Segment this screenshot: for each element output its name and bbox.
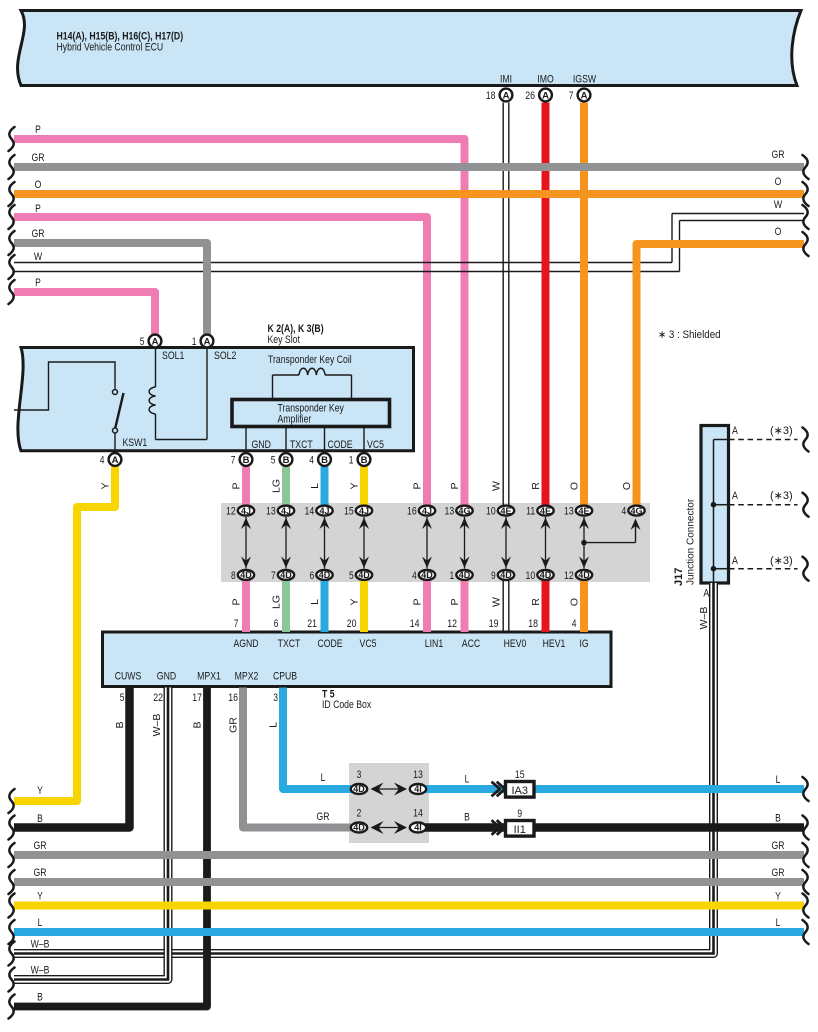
svg-text:4D: 4D [459, 570, 471, 580]
svg-text:3: 3 [357, 769, 362, 781]
svg-text:10: 10 [486, 506, 496, 518]
svg-text:O: O [35, 179, 42, 191]
svg-text:13: 13 [445, 506, 455, 518]
svg-text:A: A [503, 90, 510, 101]
svg-text:5: 5 [271, 455, 276, 467]
svg-text:O: O [621, 482, 633, 490]
svg-text:3: 3 [273, 692, 278, 704]
svg-text:4I: 4I [414, 784, 422, 794]
svg-text:MPX2: MPX2 [235, 671, 259, 683]
svg-text:W: W [491, 597, 503, 607]
svg-text:GR: GR [772, 840, 785, 852]
svg-text:HEV1: HEV1 [543, 638, 566, 650]
svg-text:P: P [35, 124, 41, 136]
svg-text:20: 20 [347, 618, 357, 630]
svg-text:P: P [449, 482, 461, 489]
svg-text:LIN1: LIN1 [425, 638, 443, 650]
svg-text:R: R [530, 598, 542, 606]
svg-text:4E: 4E [540, 506, 551, 516]
svg-text:B: B [283, 455, 290, 466]
svg-text:4: 4 [309, 455, 314, 467]
svg-text:17: 17 [192, 692, 202, 704]
svg-text:4J: 4J [241, 506, 251, 516]
svg-text:W–B: W–B [31, 965, 50, 977]
svg-text:GR: GR [34, 840, 47, 852]
svg-text:L: L [776, 917, 781, 929]
svg-text:A: A [581, 90, 588, 101]
svg-text:Transponder Key Coil: Transponder Key Coil [268, 354, 352, 366]
svg-text:B: B [361, 455, 368, 466]
svg-text:2: 2 [357, 808, 362, 820]
svg-text:12: 12 [226, 506, 236, 518]
svg-text:16: 16 [228, 692, 238, 704]
svg-text:GND: GND [252, 439, 271, 451]
svg-text:GR: GR [228, 717, 240, 733]
svg-text:P: P [231, 482, 243, 489]
svg-text:A: A [542, 90, 549, 101]
svg-text:Amplifier: Amplifier [278, 414, 312, 426]
svg-text:Y: Y [100, 482, 112, 489]
svg-text:P: P [35, 203, 41, 215]
svg-text:VC5: VC5 [367, 439, 384, 451]
svg-text:4: 4 [412, 570, 417, 582]
svg-text:A: A [112, 455, 119, 466]
svg-text:(∗3): (∗3) [770, 425, 793, 437]
svg-text:W–B: W–B [151, 714, 163, 737]
svg-text:7: 7 [569, 90, 574, 102]
svg-text:GR: GR [32, 152, 45, 164]
svg-text:5: 5 [120, 692, 125, 704]
svg-text:4D: 4D [319, 570, 331, 580]
svg-text:4D: 4D [240, 570, 252, 580]
svg-text:L: L [268, 722, 280, 728]
svg-text:4D: 4D [578, 570, 590, 580]
svg-text:B: B [321, 455, 328, 466]
svg-text:4J: 4J [422, 506, 432, 516]
svg-text:P: P [412, 482, 424, 489]
svg-text:14: 14 [305, 506, 315, 518]
svg-text:16: 16 [407, 506, 417, 518]
svg-text:GR: GR [34, 867, 47, 879]
svg-text:IMI: IMI [500, 74, 512, 86]
svg-text:4G: 4G [458, 506, 470, 516]
svg-text:HEV0: HEV0 [504, 638, 527, 650]
svg-text:B: B [243, 455, 250, 466]
svg-text:26: 26 [525, 90, 535, 102]
svg-text:1: 1 [192, 336, 197, 348]
svg-text:A: A [732, 490, 738, 502]
svg-text:4G: 4G [630, 506, 642, 516]
svg-text:12: 12 [447, 618, 457, 630]
svg-text:II1: II1 [514, 824, 526, 836]
svg-text:O: O [775, 226, 782, 238]
svg-text:B: B [37, 813, 43, 825]
svg-text:L: L [309, 483, 321, 489]
svg-text:B: B [37, 992, 43, 1004]
svg-text:IG: IG [579, 638, 588, 650]
svg-text:W–B: W–B [31, 939, 50, 951]
svg-text:18: 18 [528, 618, 538, 630]
svg-text:7: 7 [271, 570, 276, 582]
svg-text:13: 13 [266, 506, 276, 518]
svg-text:A: A [703, 588, 709, 600]
svg-text:P: P [412, 598, 424, 605]
svg-text:GR: GR [772, 149, 785, 161]
svg-text:L: L [321, 772, 326, 784]
svg-text:19: 19 [489, 618, 499, 630]
svg-text:A: A [732, 425, 738, 437]
svg-text:4D: 4D [540, 570, 552, 580]
svg-text:SOL1: SOL1 [162, 350, 184, 362]
svg-text:B: B [192, 721, 204, 728]
svg-text:LG: LG [271, 479, 283, 493]
svg-text:O: O [569, 482, 581, 490]
svg-text:SOL2: SOL2 [214, 350, 236, 362]
svg-text:B: B [464, 812, 470, 824]
svg-text:IA3: IA3 [511, 785, 528, 797]
svg-text:ID Code Box: ID Code Box [322, 699, 372, 711]
svg-text:LG: LG [271, 595, 283, 609]
svg-text:ACC: ACC [462, 638, 480, 650]
svg-text:14: 14 [413, 808, 423, 820]
svg-text:4D: 4D [500, 570, 512, 580]
svg-text:4J: 4J [319, 506, 329, 516]
svg-text:9: 9 [517, 808, 522, 820]
svg-text:4D: 4D [353, 784, 365, 794]
svg-text:GND: GND [157, 671, 176, 683]
svg-text:4E: 4E [500, 506, 511, 516]
svg-text:Y: Y [37, 785, 43, 797]
svg-text:18: 18 [486, 90, 496, 102]
svg-text:21: 21 [307, 618, 317, 630]
svg-text:4: 4 [100, 455, 105, 467]
svg-text:O: O [569, 598, 581, 606]
svg-text:13: 13 [413, 769, 423, 781]
svg-text:4: 4 [622, 506, 627, 518]
svg-text:TXCT: TXCT [278, 638, 301, 650]
svg-text:7: 7 [234, 618, 239, 630]
svg-text:6: 6 [310, 570, 315, 582]
svg-text:CODE: CODE [317, 638, 342, 650]
svg-text:W–B: W–B [698, 607, 710, 630]
svg-text:TXCT: TXCT [290, 439, 313, 451]
svg-text:CUWS: CUWS [115, 671, 142, 683]
svg-text:MPX1: MPX1 [197, 671, 221, 683]
svg-text:CPUB: CPUB [273, 671, 297, 683]
svg-text:7: 7 [231, 455, 236, 467]
svg-text:4E: 4E [578, 506, 589, 516]
svg-text:4D: 4D [358, 570, 370, 580]
svg-text:∗ 3 : Shielded: ∗ 3 : Shielded [658, 329, 721, 341]
svg-text:IMO: IMO [537, 74, 554, 86]
svg-text:Junction Connector: Junction Connector [686, 498, 697, 585]
svg-text:Y: Y [349, 482, 361, 489]
svg-text:9: 9 [491, 570, 496, 582]
svg-text:W: W [491, 481, 503, 491]
svg-text:P: P [35, 277, 41, 289]
svg-text:W: W [774, 199, 783, 211]
svg-text:4J: 4J [359, 506, 369, 516]
svg-text:22: 22 [153, 692, 163, 704]
svg-text:1: 1 [349, 455, 354, 467]
svg-text:11: 11 [526, 506, 535, 518]
svg-text:13: 13 [564, 506, 574, 518]
svg-text:B: B [775, 813, 781, 825]
svg-text:15: 15 [344, 506, 354, 518]
svg-text:W: W [34, 251, 43, 263]
svg-text:6: 6 [274, 618, 279, 630]
svg-text:1: 1 [450, 570, 455, 582]
svg-text:4: 4 [572, 618, 577, 630]
svg-text:CODE: CODE [328, 439, 353, 451]
svg-text:Y: Y [775, 891, 781, 903]
svg-text:5: 5 [140, 336, 145, 348]
svg-text:L: L [309, 599, 321, 605]
svg-text:A: A [732, 555, 738, 567]
svg-text:A: A [152, 336, 159, 347]
svg-text:Key Slot: Key Slot [268, 334, 300, 346]
svg-text:L: L [465, 774, 470, 786]
svg-text:A: A [204, 336, 211, 347]
svg-text:5: 5 [349, 570, 354, 582]
svg-text:IGSW: IGSW [573, 74, 597, 86]
svg-text:4I: 4I [414, 823, 422, 833]
svg-text:GR: GR [32, 228, 45, 240]
svg-text:O: O [775, 176, 782, 188]
svg-text:14: 14 [410, 618, 420, 630]
svg-text:4D: 4D [421, 570, 433, 580]
svg-text:4D: 4D [280, 570, 292, 580]
svg-text:4D: 4D [353, 823, 365, 833]
svg-text:AGND: AGND [233, 638, 258, 650]
svg-text:P: P [231, 598, 243, 605]
svg-text:J17: J17 [673, 568, 685, 586]
svg-text:8: 8 [231, 570, 236, 582]
svg-text:KSW1: KSW1 [123, 437, 148, 449]
svg-text:L: L [38, 917, 43, 929]
svg-text:12: 12 [564, 570, 574, 582]
svg-text:10: 10 [526, 570, 536, 582]
svg-text:GR: GR [317, 811, 330, 823]
svg-text:15: 15 [515, 769, 525, 781]
svg-text:R: R [530, 482, 542, 490]
svg-text:4J: 4J [281, 506, 291, 516]
svg-text:P: P [449, 598, 461, 605]
svg-text:B: B [114, 721, 126, 728]
svg-text:Y: Y [349, 598, 361, 605]
svg-text:VC5: VC5 [360, 638, 377, 650]
svg-text:Y: Y [37, 891, 43, 903]
svg-text:GR: GR [772, 867, 785, 879]
svg-text:Hybrid Vehicle Control ECU: Hybrid Vehicle Control ECU [57, 42, 164, 54]
svg-text:L: L [776, 774, 781, 786]
svg-text:(∗3): (∗3) [770, 555, 793, 567]
svg-text:(∗3): (∗3) [770, 490, 793, 502]
